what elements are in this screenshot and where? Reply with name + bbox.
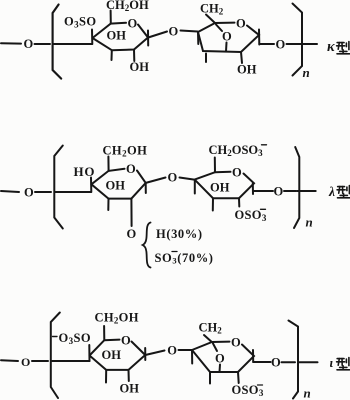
label minus O3SO iota: [53, 336, 58, 338]
bond C3 tick lambda-2: [212, 198, 214, 210]
charge bar SO3 lambda: [172, 251, 177, 253]
svg-text:CH2: CH2: [200, 2, 224, 17]
atom O right kappa: [276, 38, 286, 52]
ring kappa-2 anhydrogalactose: [198, 23, 259, 52]
wire stub right lambda: [297, 190, 316, 192]
atom O ring lambda-2: [232, 166, 242, 180]
atom O glycosidic kappa: [169, 25, 179, 39]
svg-text:OH: OH: [102, 348, 122, 362]
svg-text:O: O: [274, 185, 284, 199]
bond C6-CH2 kappa: [206, 15, 215, 24]
atom O ring lambda-1: [126, 162, 136, 176]
svg-text:O3SO: O3SO: [64, 15, 97, 30]
charge bar CH2OSO3 lambda: [262, 144, 267, 146]
wire bracket-to-ring lambda: [55, 191, 91, 193]
bond C4 tick iota-2: [191, 350, 193, 364]
bond C1 tick lambda-2: [252, 183, 254, 194]
bond C5-CH2OSO3 lambda: [214, 158, 216, 173]
svg-text:O: O: [232, 166, 242, 180]
bond C3 tick iota-1: [105, 370, 107, 383]
label CH2OSO3 lambda: [209, 143, 264, 158]
wire O-to-bracket iota: [32, 360, 48, 362]
bond C1 tick kappa-2: [258, 30, 260, 45]
label xing iota: [337, 358, 350, 370]
bond C4-O3SO kappa: [91, 30, 93, 45]
bond C2-OSO3 lambda: [238, 198, 240, 206]
label CH2 iota: [199, 321, 223, 336]
bond C1-Oright kappa: [259, 43, 274, 45]
bracket left iota: [51, 313, 60, 399]
svg-text:O: O: [24, 186, 34, 200]
svg-text:CH2OSO3: CH2OSO3: [209, 143, 264, 158]
bond C1-Oright lambda: [253, 190, 273, 192]
label CH2OH lambda: [103, 143, 148, 158]
bond C4-HO lambda: [90, 178, 92, 193]
svg-text:ι: ι: [330, 355, 334, 370]
bond C3 tick kappa-1: [111, 50, 113, 60]
svg-text:O: O: [169, 25, 179, 39]
label OH below iota-1: [120, 381, 140, 395]
charge bar OSO3 lambda: [261, 208, 266, 210]
wire bracket-to-ring iota: [52, 360, 90, 362]
atom O left kappa: [24, 37, 34, 51]
svg-text:CH2: CH2: [199, 321, 223, 336]
bond C1 tick kappa-1: [147, 31, 149, 46]
atom O right lambda: [274, 185, 284, 199]
bond C1-Oglyc iota: [145, 351, 164, 356]
label OH inside lambda-2: [210, 181, 230, 195]
svg-text:O: O: [215, 352, 225, 366]
atom O left iota: [21, 355, 30, 369]
bracket left kappa: [53, 5, 62, 79]
bond C2-OH kappa-1: [133, 50, 135, 62]
bond anhydro O-C3 iota: [219, 365, 222, 373]
label CH2OH iota: [95, 311, 139, 326]
bond C3 tick kappa-2: [205, 54, 207, 63]
label OH below kappa-2: [237, 63, 257, 77]
label n lambda: [306, 215, 313, 230]
svg-text:O: O: [128, 17, 138, 31]
wire stub right iota: [299, 361, 318, 363]
svg-text:O: O: [121, 334, 131, 348]
bond C2-OSO3 iota: [237, 372, 240, 383]
bond C1 tick lambda-1: [145, 183, 147, 193]
svg-text:O3SO: O3SO: [59, 331, 92, 346]
svg-text:O: O: [24, 37, 34, 51]
svg-text:HO: HO: [74, 164, 96, 179]
bond C2-OH kappa-2: [241, 52, 242, 63]
svg-text:CH2OH: CH2OH: [95, 311, 139, 326]
wire stub right kappa: [303, 43, 317, 45]
atom O substituent lambda: [127, 227, 137, 241]
label n iota: [304, 386, 311, 400]
svg-text:O: O: [271, 356, 281, 370]
bond C3 tick lambda-1: [107, 199, 109, 210]
svg-text:n: n: [303, 65, 310, 80]
label OSO3 iota: [232, 383, 264, 398]
svg-text:SO3(70%): SO3(70%): [155, 251, 214, 266]
svg-text:OH: OH: [107, 29, 127, 43]
ring lambda-2 galactose: [195, 172, 254, 198]
wire O-to-bracket kappa: [35, 43, 51, 45]
svg-text:OH: OH: [130, 60, 150, 74]
svg-text:OH: OH: [106, 178, 126, 192]
atom O left lambda: [24, 186, 34, 200]
svg-text:O: O: [21, 355, 30, 369]
label HO lambda: [74, 164, 96, 179]
bracket right kappa: [293, 4, 303, 76]
svg-text:O: O: [168, 171, 178, 185]
bond C4 tick kappa-2: [197, 32, 199, 44]
bond C1 tick iota-2: [252, 350, 254, 362]
svg-text:O: O: [167, 344, 177, 358]
svg-text:κ: κ: [327, 39, 335, 55]
bond C5-CH2OH iota: [103, 326, 105, 340]
label xing lambda: [337, 186, 350, 198]
label OH inside lambda-1: [106, 178, 126, 192]
svg-text:O: O: [236, 17, 246, 31]
ring iota-2 anhydrogalactose: [192, 342, 254, 372]
svg-text:OSO3: OSO3: [235, 208, 267, 223]
ring kappa-1 galactose: [93, 23, 149, 51]
label xing kappa: [337, 42, 350, 54]
bracket left lambda: [54, 146, 63, 229]
svg-text:n: n: [304, 386, 311, 400]
svg-text:OH: OH: [120, 381, 140, 395]
label CH2 kappa: [200, 2, 224, 17]
atom O ring iota-2: [231, 336, 241, 350]
bond C2-OH iota-1: [128, 370, 130, 381]
atom O anhydro iota: [215, 352, 225, 366]
atom O glycosidic lambda: [168, 171, 178, 185]
bond C6-CH2 iota: [204, 335, 212, 342]
wire O-to-bracket-right kappa: [287, 43, 302, 45]
label OH below kappa-1: [130, 60, 150, 74]
bond C1-Oright iota: [253, 361, 270, 363]
svg-text:OH: OH: [237, 63, 257, 77]
bond anhydro C5-O iota: [213, 344, 217, 352]
label iota greek: [330, 355, 334, 370]
wire O-to-bracket lambda: [35, 191, 51, 193]
bracket right lambda: [294, 147, 299, 228]
wire left chain iota: [1, 359, 18, 362]
svg-text:O: O: [127, 227, 137, 241]
bond C4-O3SO iota: [88, 345, 90, 361]
bond anhydro C5-O kappa: [216, 25, 222, 32]
bond C5-CH2OH kappa: [110, 11, 112, 24]
bond Oglyc-ring2 kappa: [181, 31, 198, 32]
svg-text:OH: OH: [210, 181, 230, 195]
svg-text:λ: λ: [328, 184, 335, 199]
bond Oglyc-ring2 iota: [179, 349, 192, 351]
svg-text:n: n: [306, 215, 313, 230]
label O3SO iota: [59, 331, 92, 346]
svg-text:CH2OH: CH2OH: [103, 143, 148, 158]
atom O right iota: [271, 356, 281, 370]
atom O ring kappa-1: [128, 17, 138, 31]
svg-text:O: O: [126, 162, 136, 176]
atom O ring iota-1: [121, 334, 131, 348]
label OSO3 lambda: [235, 208, 267, 223]
svg-text:O: O: [222, 30, 232, 44]
bond C1-Oglyc lambda: [146, 178, 166, 183]
label n kappa: [303, 65, 310, 80]
wire O-to-bracket-right lambda: [284, 190, 296, 192]
ring lambda-1 galactose: [91, 169, 145, 199]
label OH inside iota-1: [102, 348, 122, 362]
svg-text:H(30%): H(30%): [156, 227, 203, 241]
svg-text:O: O: [276, 38, 286, 52]
bond C3 tick iota-2: [209, 372, 211, 384]
label lambda greek: [328, 184, 335, 199]
wire left chain kappa: [1, 42, 21, 44]
bracket right iota: [289, 321, 299, 399]
label OH inside kappa-1: [107, 29, 127, 43]
bond C1 tick iota-1: [144, 348, 146, 360]
atom O ring kappa-2: [236, 17, 246, 31]
brace lambda: [143, 223, 151, 268]
wire left chain lambda: [1, 191, 19, 192]
atom O anhydro kappa: [222, 30, 232, 44]
charge bar OSO3 iota: [258, 384, 263, 386]
svg-text:O: O: [231, 336, 241, 350]
bond C4 tick lambda-2: [194, 180, 196, 194]
bond Oglyc-ring2 lambda: [180, 178, 195, 180]
label O3SO kappa: [64, 15, 97, 30]
ring iota-1 galactose: [90, 340, 146, 370]
label H30 lambda: [156, 227, 203, 241]
bond C5-CH2OH lambda: [107, 157, 109, 171]
bond anhydro O-C3 kappa: [225, 43, 228, 52]
label SO3 70 lambda: [155, 251, 214, 266]
atom O glycosidic iota: [167, 344, 177, 358]
svg-text:CH2OH: CH2OH: [106, 0, 149, 13]
label CH2OH kappa: [106, 0, 149, 13]
bond C2-O lambda-1: [130, 199, 132, 226]
bond C1-Oglyc kappa: [148, 32, 167, 38]
wire bracket-to-ring kappa: [54, 43, 93, 45]
label kappa greek: [327, 39, 335, 55]
wire O-to-bracket-right iota: [282, 361, 296, 363]
